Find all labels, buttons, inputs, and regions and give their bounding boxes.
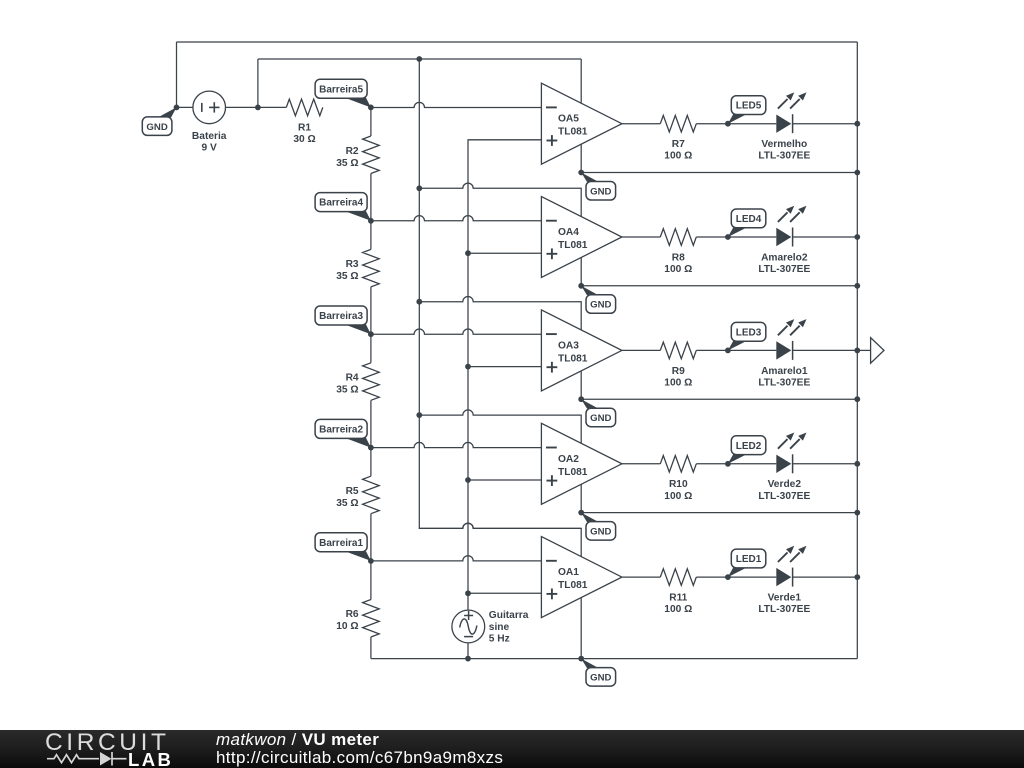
junction: ground rail row 5 [854, 170, 860, 176]
wire: +9V riser from battery node [257, 59, 259, 107]
svg-text:GND: GND [146, 122, 167, 133]
wire: OA1 output to R11 [622, 576, 660, 578]
junction: ground node at battery [174, 105, 180, 111]
svg-text:GND: GND [590, 186, 611, 197]
signal source V2 Guitarra sine 5Hz [452, 610, 529, 645]
emission arrows [778, 326, 788, 336]
wire: Barreira2 net to OA2 inverting input [371, 442, 542, 447]
wire: OA2 output to R10 [622, 463, 660, 465]
net flag LED2 [728, 436, 766, 464]
CircuitLab logo [45, 729, 173, 768]
svg-text:100 Ω: 100 Ω [664, 377, 692, 388]
svg-text:LTL-307EE: LTL-307EE [758, 377, 810, 388]
op-amp OA2 TL081 [541, 423, 622, 504]
resistor R3 35 ohm [336, 249, 379, 287]
output port arrow (node out) [871, 338, 884, 364]
svg-text:R5: R5 [346, 486, 359, 497]
svg-text:TL081: TL081 [558, 467, 588, 478]
op-amp OA1 TL081 [541, 537, 622, 618]
wire: divider bus top segment (Barreira5 node to R2) [370, 107, 372, 136]
svg-text:GND: GND [590, 413, 611, 424]
emission arrows [778, 552, 788, 562]
LED LED4 Amarelo2 LTL-307EE [758, 206, 810, 275]
wire: Barreira3 node to R4 [370, 334, 372, 363]
pin label: inverting input OA5 [546, 106, 557, 108]
junction: OA3 ground node [578, 396, 584, 402]
svg-text:TL081: TL081 [558, 580, 588, 591]
wire: OA2 V- pin [580, 464, 582, 513]
junction: battery positive node [255, 105, 261, 111]
junction: Barreira3 node [368, 331, 374, 337]
net flag Barreira2 [315, 419, 371, 447]
svg-text:R4: R4 [346, 373, 359, 384]
wire: Barreira4 node to R3 [370, 221, 372, 250]
svg-text:Amarelo2: Amarelo2 [761, 252, 808, 263]
svg-text:TL081: TL081 [558, 127, 588, 138]
svg-text:LED2: LED2 [736, 441, 762, 452]
wire: R2 to Barreira4 node [370, 174, 372, 221]
svg-text:Barreira3: Barreira3 [319, 311, 363, 322]
junction: V+ feed OA2 [416, 412, 422, 418]
svg-text:Bateria: Bateria [192, 131, 227, 142]
junction: signal bus at OA3 + [465, 364, 471, 370]
junction: signal bus at OA4 + [465, 250, 471, 256]
pin label: inverting input OA3 [546, 333, 557, 335]
resistor R7 100 ohm [660, 115, 696, 161]
junction: V+ feed OA4 [416, 185, 422, 191]
junction: ground rail row 3 [854, 396, 860, 402]
pin label: inverting input OA1 [546, 560, 557, 562]
LED LED3 Amarelo1 LTL-307EE [758, 319, 810, 388]
svg-text:Barreira4: Barreira4 [319, 198, 363, 209]
resistor R6 10 ohm [336, 600, 379, 638]
junction: OA2 ground node [578, 510, 584, 516]
wire: OA4 ground return to right rail [581, 285, 857, 287]
wire: LED cathode to right rail [793, 123, 858, 125]
wire: signal bus to OA5 non-inverting input [468, 139, 541, 141]
wire: OA2 ground return to right rail [581, 512, 857, 514]
junction: LED5 cathode at right rail [854, 121, 860, 127]
op-amp OA4 TL081 [541, 197, 622, 278]
junction: LED3 flag node [725, 348, 731, 354]
junction: Barreira1 node [368, 558, 374, 564]
wire: Barreira3 net to OA3 inverting input [371, 329, 542, 334]
junction: LED2 flag node [725, 461, 731, 467]
svg-text:35 Ω: 35 Ω [336, 385, 358, 396]
svg-text:LED1: LED1 [736, 554, 762, 565]
svg-text:GND: GND [590, 300, 611, 311]
net flag LED5 [728, 96, 766, 124]
resistor R11 100 ohm [660, 569, 696, 615]
wire: battery to R1 segment [177, 106, 287, 108]
resistor R4 35 ohm [336, 363, 379, 401]
wire: left ground riser [176, 42, 178, 107]
ground flag at bottom rail [581, 659, 615, 687]
wire: OA3 V- pin [580, 350, 582, 399]
ground flag OA5 [581, 173, 615, 201]
pin label: non-inverting input OA1 [547, 593, 558, 595]
net flag Barreira3 [315, 306, 371, 334]
wire: OA1 V- pin [580, 577, 582, 659]
svg-text:100 Ω: 100 Ω [664, 604, 692, 615]
pin label: non-inverting input OA2 [547, 480, 558, 482]
junction: OA5 ground node [578, 170, 584, 176]
svg-text:OA4: OA4 [558, 227, 579, 238]
svg-text:LED4: LED4 [736, 214, 762, 225]
svg-text:LAB: LAB [128, 749, 173, 768]
svg-text:30 Ω: 30 Ω [293, 134, 315, 145]
svg-text:35 Ω: 35 Ω [336, 271, 358, 282]
wire: Barreira1 node to R6 [370, 561, 372, 600]
junction: LED1 flag node [725, 574, 731, 580]
svg-text:100 Ω: 100 Ω [664, 264, 692, 275]
wire: signal bus to OA2 non-inverting input [468, 479, 541, 481]
svg-text:LTL-307EE: LTL-307EE [758, 151, 810, 162]
wire: V+ feed to OA1 [419, 523, 581, 577]
junction: Barreira4 node [368, 218, 374, 224]
wire: R8 to LED [696, 236, 776, 238]
junction: source bottom node [465, 656, 471, 662]
junction: ground rail row 2 [854, 510, 860, 516]
emission arrows [778, 99, 788, 109]
junction: LED1 cathode at right rail [854, 574, 860, 580]
wire: OA4 output to R8 [622, 236, 660, 238]
wire: signal bus to OA1 non-inverting input [468, 592, 541, 594]
junction: OA4 ground node [578, 283, 584, 289]
net flag Barreira1 [315, 533, 371, 561]
junction: LED2 cathode at right rail [854, 461, 860, 467]
emission arrows [778, 439, 788, 449]
pin label: non-inverting input OA5 [547, 140, 558, 142]
svg-text:Barreira2: Barreira2 [319, 425, 363, 436]
svg-text:10 Ω: 10 Ω [336, 621, 358, 632]
wire: bottom ground rail [371, 658, 857, 660]
wire: V+ distribution bus [419, 59, 581, 528]
junction: V+ bus tap on +9V rail [416, 56, 422, 62]
svg-text:5 Hz: 5 Hz [489, 634, 510, 645]
wire: output port stub [857, 349, 870, 351]
junction: LED5 flag node [725, 121, 731, 127]
svg-text:Barreira1: Barreira1 [319, 538, 363, 549]
LED LED2 Verde2 LTL-307EE [758, 433, 810, 502]
svg-text:LED3: LED3 [736, 327, 762, 338]
ground flag OA4 [581, 286, 615, 314]
svg-text:R11: R11 [669, 593, 687, 604]
op-amp OA5 TL081 [541, 83, 622, 164]
LED LED1 Verde1 LTL-307EE [758, 546, 810, 615]
wire: right ground rail [856, 42, 858, 659]
svg-text:R9: R9 [672, 366, 685, 377]
pin label: non-inverting input OA4 [547, 253, 558, 255]
wire: +9V rail [258, 58, 581, 60]
junction: signal bus at OA1 + [465, 590, 471, 596]
wire: OA5 output to R7 [622, 123, 660, 125]
svg-text:TL081: TL081 [558, 240, 588, 251]
junction: ground rail row 4 [854, 283, 860, 289]
svg-text:R8: R8 [672, 252, 685, 263]
svg-text:R1: R1 [298, 122, 311, 133]
wire: V+ feed to OA2 [419, 410, 581, 464]
svg-text:35 Ω: 35 Ω [336, 158, 358, 169]
wire: OA3 ground return to right rail [581, 398, 857, 400]
wire: R4 to Barreira2 node [370, 400, 372, 447]
wire: OA3 output to R9 [622, 349, 660, 351]
pin label: inverting input OA2 [546, 447, 557, 449]
wire: LED cathode to right rail [793, 576, 858, 578]
emission arrows [778, 212, 788, 222]
wire: LED cathode to right rail [793, 236, 858, 238]
svg-text:TL081: TL081 [558, 353, 588, 364]
wire: R3 to Barreira3 node [370, 287, 372, 334]
svg-text:R3: R3 [346, 259, 359, 270]
svg-text:GND: GND [590, 673, 611, 684]
junction: Barreira2 node [368, 445, 374, 451]
wire: OA5 V+ pin from +9V rail [580, 59, 582, 173]
ground flag at battery [142, 107, 176, 135]
svg-text:LTL-307EE: LTL-307EE [758, 491, 810, 502]
wire: V+ feed to OA3 [419, 297, 581, 351]
wire: OA4 V- pin [580, 237, 582, 286]
net flag LED1 [728, 549, 766, 577]
resistor R1 30Ω [286, 99, 323, 145]
svg-text:Guitarra: Guitarra [489, 610, 529, 621]
wire: Barreira4 net to OA4 inverting input [371, 216, 542, 221]
resistor R5 35 ohm [336, 476, 379, 514]
svg-text:Barreira5: Barreira5 [319, 84, 363, 95]
wire: R11 to LED [696, 576, 776, 578]
wire: signal bus to OA3 non-inverting input [468, 366, 541, 368]
net flag LED4 [728, 209, 766, 237]
svg-text:OA2: OA2 [558, 454, 579, 465]
svg-text:LTL-307EE: LTL-307EE [758, 264, 810, 275]
svg-text:OA5: OA5 [558, 114, 579, 125]
wire: OA5 ground return to right rail [581, 172, 857, 174]
wire: R6 to bottom rail [370, 637, 372, 659]
junction: LED4 cathode at right rail [854, 234, 860, 240]
svg-text:Vermelho: Vermelho [761, 139, 807, 150]
net flag Barreira5 [315, 79, 371, 107]
svg-text:R7: R7 [672, 139, 685, 150]
junction: V+ feed OA3 [416, 299, 422, 305]
svg-text:Amarelo1: Amarelo1 [761, 366, 808, 377]
wire: R9 to LED [696, 349, 776, 351]
junction: OA1 V- at bottom rail [578, 656, 584, 662]
resistor R2 35 ohm [336, 136, 379, 174]
pin label: non-inverting input OA3 [547, 366, 558, 368]
svg-text:LED5: LED5 [736, 101, 762, 112]
junction: Barreira5 node [368, 105, 374, 111]
LED LED5 Vermelho LTL-307EE [758, 92, 810, 161]
wire: Barreira5 net to OA5 inverting input [371, 102, 542, 107]
wire: Barreira1 net to OA1 inverting input [371, 556, 542, 561]
pin label: inverting input OA4 [546, 220, 557, 222]
svg-text:100 Ω: 100 Ω [664, 151, 692, 162]
ground flag OA3 [581, 399, 615, 427]
resistor R8 100 ohm [660, 229, 696, 275]
svg-text:sine: sine [489, 622, 510, 633]
svg-text:R6: R6 [346, 609, 359, 620]
wire: R10 to LED [696, 463, 776, 465]
svg-text:9 V: 9 V [202, 142, 217, 153]
battery V1 Bateria 9V [192, 91, 227, 153]
svg-text:35 Ω: 35 Ω [336, 498, 358, 509]
junction: LED3 cathode at right rail [854, 348, 860, 354]
svg-text:OA1: OA1 [558, 567, 579, 578]
wire: LED cathode to right rail [793, 349, 858, 351]
wire: signal bus to OA4 non-inverting input [468, 252, 541, 254]
svg-text:Verde1: Verde1 [768, 593, 802, 604]
svg-text:R10: R10 [669, 479, 688, 490]
svg-text:R2: R2 [346, 146, 359, 157]
svg-text:OA3: OA3 [558, 340, 579, 351]
wire: R7 to LED [696, 123, 776, 125]
ground flag OA2 [581, 513, 615, 541]
wire: top ground rail [177, 41, 858, 43]
svg-text:LTL-307EE: LTL-307EE [758, 604, 810, 615]
svg-text:Verde2: Verde2 [768, 479, 802, 490]
junction: signal bus at OA2 + [465, 477, 471, 483]
wire: LED cathode to right rail [793, 463, 858, 465]
op-amp OA3 TL081 [541, 310, 622, 391]
svg-text:GND: GND [590, 527, 611, 538]
svg-text:100 Ω: 100 Ω [664, 491, 692, 502]
wire: Barreira2 node to R5 [370, 448, 372, 477]
resistor R9 100 ohm [660, 342, 696, 388]
wire: R5 to Barreira1 node [370, 514, 372, 561]
net flag Barreira4 [315, 193, 371, 221]
wire: V+ feed to OA4 [419, 183, 581, 237]
wire: signal bus from OA5 + input down to source [468, 140, 541, 659]
net flag LED3 [728, 322, 766, 350]
junction: LED4 flag node [725, 234, 731, 240]
resistor R10 100 ohm [660, 456, 696, 502]
